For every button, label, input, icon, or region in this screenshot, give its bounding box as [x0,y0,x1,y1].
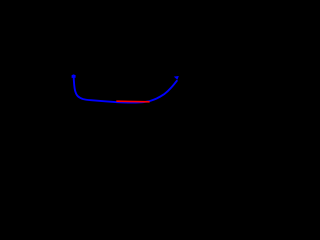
bathtub curve (blue observed failure rate) [74,76,178,103]
arrowhead right (top of wear-out branch) [174,76,179,80]
arrowhead left (top of infant-mortality branch) [72,74,76,78]
constant failure rate line (red) [116,100,149,103]
